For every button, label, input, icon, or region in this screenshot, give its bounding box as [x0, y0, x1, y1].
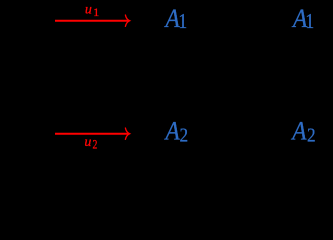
svg-text:A: A	[290, 117, 307, 146]
svg-text:1: 1	[93, 5, 99, 19]
svg-text:1: 1	[178, 11, 187, 34]
svg-text:2: 2	[93, 138, 98, 152]
svg-text:1: 1	[305, 11, 314, 34]
wire: bottom arrow shaft u2	[55, 133, 128, 135]
svg-text:2: 2	[307, 124, 316, 147]
arrowhead of bottom arrow u2	[125, 128, 129, 139]
svg-text:2: 2	[180, 124, 189, 147]
node A2 bottom-left	[164, 117, 188, 147]
svg-text:u: u	[85, 2, 92, 17]
label u1	[85, 2, 99, 19]
node A1 top-left	[164, 5, 188, 34]
label u2	[84, 135, 97, 152]
wire: top arrow shaft u1	[55, 20, 128, 22]
arrowhead of top arrow u1	[125, 15, 129, 26]
svg-text:A: A	[164, 117, 181, 146]
node A2 bottom-right	[290, 117, 315, 147]
node A1 top-right	[291, 5, 314, 34]
svg-text:u: u	[84, 135, 91, 150]
